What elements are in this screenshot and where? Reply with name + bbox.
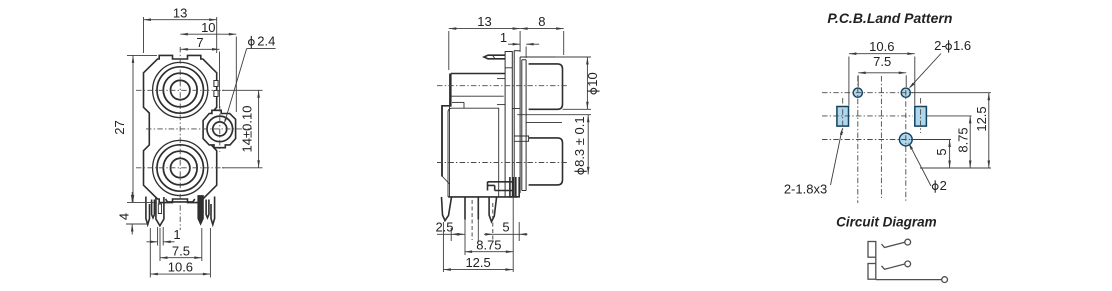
terminal ground circle bbox=[942, 277, 948, 283]
svg-text:2.4: 2.4 bbox=[257, 34, 275, 49]
front view bottom centre step bbox=[166, 199, 195, 202]
svg-text:2: 2 bbox=[940, 178, 947, 193]
dimension 8.75 pcb bbox=[926, 115, 971, 117]
side view inner wall lines bbox=[449, 74, 451, 197]
side leg rear bbox=[489, 197, 497, 222]
dimension 12.5 pcb bbox=[911, 92, 991, 94]
dimension 8.75 side bbox=[465, 251, 514, 253]
dimension 10 front bbox=[235, 37, 237, 113]
svg-text:14±0.10: 14±0.10 bbox=[240, 106, 255, 153]
dimension 2.5 side bbox=[450, 228, 452, 241]
dimension 4 front bbox=[126, 223, 147, 225]
jack J1 horizontal centreline bbox=[136, 89, 224, 91]
jack J2 bottom outer circle bbox=[153, 140, 208, 195]
dimension 10.6 front bbox=[149, 228, 151, 278]
svg-text:5: 5 bbox=[934, 148, 949, 155]
svg-text:8.3 ± 0.1: 8.3 ± 0.1 bbox=[572, 116, 587, 167]
wire bus connector bbox=[875, 257, 877, 263]
dimension 8 side bbox=[563, 31, 565, 55]
dimension 10.6 pcb bbox=[848, 57, 850, 106]
jack J2 inner ring bbox=[163, 151, 197, 185]
dimension 12.5 side bbox=[443, 269, 513, 271]
pcb pad rect right 1.8x3 bbox=[915, 107, 927, 127]
pcb hole right phi1.6 bbox=[901, 88, 910, 97]
jack body lower rectangle bbox=[868, 264, 876, 280]
jack J1 top outer circle bbox=[153, 62, 208, 117]
pcb column centreline hole right bbox=[905, 90, 907, 203]
svg-text:8.75: 8.75 bbox=[955, 127, 970, 152]
dimension phi10 side bbox=[555, 56, 591, 58]
terminal lower circle bbox=[905, 261, 911, 267]
svg-text:1: 1 bbox=[173, 227, 180, 242]
side view main body outline bbox=[442, 74, 517, 197]
side leg front bbox=[442, 197, 452, 221]
front foot left channel bbox=[146, 197, 150, 225]
pcb column centreline pad right bbox=[920, 98, 922, 133]
svg-text:Circuit Diagram: Circuit Diagram bbox=[836, 215, 937, 230]
side view washer step top bbox=[512, 108, 520, 110]
label phi2 with leader bbox=[932, 184, 938, 190]
side view bottom rear lug bar bbox=[488, 182, 514, 191]
pcb row centreline middle bbox=[822, 115, 913, 117]
svg-text:8: 8 bbox=[538, 14, 545, 29]
svg-text:27: 27 bbox=[112, 120, 127, 134]
svg-text:7: 7 bbox=[196, 35, 203, 50]
svg-text:7.5: 7.5 bbox=[873, 54, 891, 69]
side leg middle walls bbox=[464, 197, 466, 220]
svg-text:10: 10 bbox=[201, 20, 215, 35]
side view inner rounded block bbox=[448, 108, 499, 197]
pcb column centreline middle bbox=[880, 76, 882, 198]
side view flange plate bbox=[520, 57, 526, 193]
terminal upper circle bbox=[905, 239, 911, 245]
dimension 14 plus minus 0.10 front bbox=[222, 89, 263, 91]
side view inner ledge bbox=[451, 95, 504, 97]
jack J1 centre hole bbox=[171, 80, 190, 99]
switch contact lower bbox=[882, 264, 905, 269]
svg-text:8.75: 8.75 bbox=[476, 237, 501, 252]
svg-text:2-1.8x3: 2-1.8x3 bbox=[784, 182, 827, 197]
side view rear contact strip 1 bbox=[505, 52, 512, 197]
svg-text:4: 4 bbox=[116, 213, 131, 220]
dimension 27 front bbox=[127, 54, 157, 56]
svg-text:13: 13 bbox=[173, 6, 187, 21]
wire ground bus bbox=[876, 279, 942, 281]
svg-text:1.6: 1.6 bbox=[953, 38, 971, 53]
pcb row centreline top bbox=[822, 92, 913, 94]
pcb hole phi2 bbox=[899, 133, 912, 146]
pcb row centreline bottom bbox=[822, 139, 911, 141]
svg-text:1: 1 bbox=[500, 30, 507, 45]
svg-text:7.5: 7.5 bbox=[172, 243, 190, 258]
front foot right channel bbox=[206, 200, 209, 218]
front view right edge serration lower bbox=[214, 91, 218, 97]
side view rear collar bbox=[510, 177, 513, 197]
side view bottom centreline bbox=[437, 162, 568, 164]
switch pin vertical centreline bbox=[219, 106, 221, 152]
label phi2.4 with leader bbox=[249, 40, 255, 46]
jack J2 ring phi8.3 bbox=[157, 145, 203, 191]
pcb column centreline hole left bbox=[857, 76, 859, 203]
jack body upper rectangle bbox=[868, 242, 876, 258]
dimension 5 side bbox=[518, 222, 520, 241]
dimension 1 front bbox=[157, 227, 159, 246]
pcb pad rect left 1.8x3 bbox=[837, 107, 849, 127]
switch contact upper bbox=[882, 242, 905, 247]
top barrel phi10 bbox=[529, 64, 563, 109]
side view top centreline bbox=[437, 85, 568, 87]
side view bottom-left chamfer bbox=[442, 176, 450, 184]
front pin P1 slot bbox=[158, 204, 161, 214]
pcb hole left phi1.6 bbox=[853, 88, 862, 97]
front view right edge serration upper bbox=[214, 81, 218, 87]
jack J1 inner ring bbox=[163, 73, 197, 107]
jack J2 centre hole bbox=[171, 158, 190, 177]
extension lines side bottom bbox=[464, 220, 466, 256]
side view top lug tab bbox=[484, 55, 505, 59]
switch pin horizontal centreline bbox=[146, 128, 252, 130]
dimension 5 pcb bbox=[911, 139, 951, 141]
svg-text:P.C.B.Land Pattern: P.C.B.Land Pattern bbox=[827, 10, 952, 26]
svg-text:12.5: 12.5 bbox=[974, 106, 989, 131]
side view washer line upper bbox=[517, 114, 591, 116]
jack J1 ring phi8.3 bbox=[157, 67, 203, 113]
front pin P2 right dark bbox=[198, 196, 204, 225]
front view body outline bbox=[144, 55, 217, 202]
side view washer step lower bbox=[514, 136, 528, 141]
dimension 7.5 pcb bbox=[857, 75, 859, 87]
dimension 13 side bbox=[448, 31, 450, 70]
side view strip cross lines bbox=[505, 67, 512, 69]
top barrel washer top line bbox=[522, 56, 562, 58]
dimension 13 front bbox=[143, 17, 145, 53]
dimension 1 side bbox=[525, 47, 527, 59]
front pin P1 left bbox=[156, 197, 164, 226]
switch pin circle phi2.4 bbox=[213, 122, 227, 136]
svg-text:12.5: 12.5 bbox=[465, 255, 490, 270]
svg-text:10.6: 10.6 bbox=[869, 39, 894, 54]
dimension phi8.3 side bbox=[587, 115, 589, 175]
side view front tab face bbox=[441, 106, 443, 177]
svg-text:10.6: 10.6 bbox=[168, 260, 193, 275]
dimension 7 front bbox=[219, 52, 221, 109]
jack J2 horizontal centreline bbox=[136, 167, 224, 169]
bottom barrel phi8.3 bbox=[529, 138, 563, 185]
svg-text:5: 5 bbox=[502, 219, 509, 234]
front view vertical centreline bbox=[179, 47, 181, 230]
svg-text:10: 10 bbox=[585, 72, 600, 86]
switch pin outer circle bbox=[207, 116, 233, 142]
washer line between barrels bbox=[526, 121, 562, 123]
svg-text:2-: 2- bbox=[934, 38, 946, 53]
svg-text:2.5: 2.5 bbox=[435, 219, 453, 234]
switch pin housing outline bbox=[203, 110, 236, 147]
svg-text:13: 13 bbox=[477, 14, 491, 29]
dimension 7.5 front bbox=[159, 228, 161, 261]
pcb column centreline pad left bbox=[842, 98, 844, 133]
side view rear contact strip 2 bbox=[514, 51, 520, 197]
